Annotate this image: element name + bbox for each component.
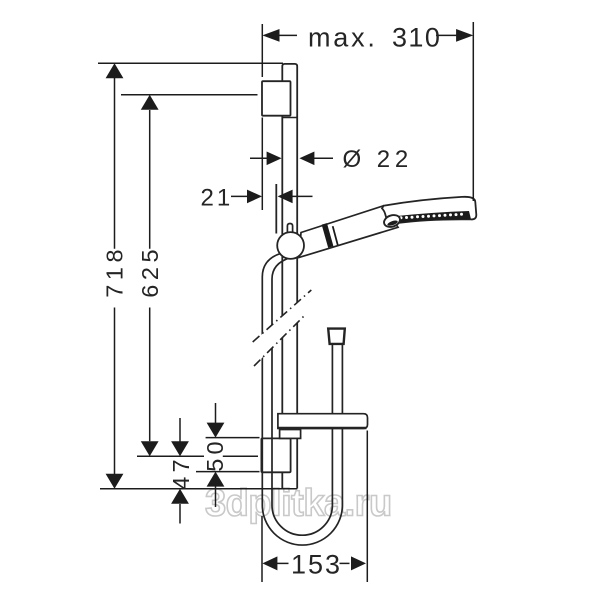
slider collar under shelf [280,430,301,439]
shower head body [382,197,476,223]
head extension line [472,22,474,201]
soap dish shelf [278,414,368,429]
wall extension line top [261,24,263,77]
dimension: 625 [121,95,258,456]
dimension: 50 [196,403,260,507]
handle grip band [324,224,331,247]
shower hose [262,254,342,546]
svg-text:Ø: Ø [343,146,362,173]
holder ball [277,232,304,259]
dim shafts [276,34,297,36]
svg-text:718: 718 [102,245,128,298]
wall bar / rail [282,64,297,489]
holder pin [287,224,292,234]
wall line below bracket [261,118,263,211]
bottom wall bracket [261,438,290,472]
holder sleeve line [275,184,277,234]
dimension: max. 310 [262,22,473,210]
arrow left max310 [262,29,279,42]
dimension: 21 [231,195,313,197]
svg-text:625: 625 [137,245,163,298]
spray nozzles [400,213,464,220]
svg-text:153: 153 [291,550,342,580]
arrow right max310 [456,29,473,42]
handshower handle [299,206,398,258]
svg-text:22: 22 [377,146,413,173]
pipe break band [251,291,312,368]
svg-text:max.: max. [308,23,378,53]
svg-text:50: 50 [202,437,228,472]
dimension: 718 [98,63,297,488]
head pivot joint oval [382,213,401,229]
dimension: diameter 22 [250,157,333,159]
svg-text:310: 310 [392,23,441,53]
top wall bracket [262,81,297,117]
dimension: 153 [262,431,367,583]
svg-text:47: 47 [168,455,194,490]
hose nut (wall coupling) [328,329,345,344]
break line upper [253,290,312,342]
svg-text:21: 21 [201,184,234,211]
dimension: 47 [179,418,181,524]
shower head spray face [395,211,471,223]
break line lower [254,314,306,366]
